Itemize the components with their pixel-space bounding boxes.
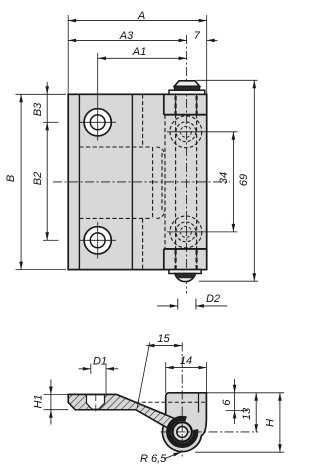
upper hidden hole on knuckle leaf (dashed circles) xyxy=(170,116,202,148)
mating leaf edge in side view xyxy=(198,393,200,413)
knuckle bottom segment xyxy=(164,249,207,270)
svg-text:6: 6 xyxy=(221,399,233,406)
dimension 6 xyxy=(221,379,248,424)
hinge body front view xyxy=(68,94,207,269)
hidden contour of mating leaf (dashed) xyxy=(79,94,152,269)
hinge pin bottom end xyxy=(169,270,201,282)
lower hole crosshair xyxy=(80,222,117,259)
pin section outer xyxy=(173,422,192,441)
side view body (mating leaf and knuckle) xyxy=(68,393,206,452)
svg-text:13: 13 xyxy=(241,407,253,420)
lower hidden hole centerline xyxy=(167,231,238,233)
hidden fillet arcs at leaf-knuckle junction (dashed) xyxy=(157,147,165,218)
svg-text:B: B xyxy=(5,175,17,182)
knuckle hidden left edge (dashed) xyxy=(162,115,165,249)
dimension 14 xyxy=(166,355,207,393)
dimension 13 xyxy=(241,393,258,433)
svg-text:A: A xyxy=(137,10,145,22)
dimension A3 xyxy=(68,30,186,42)
radius callout R 6,5 xyxy=(140,452,181,465)
dimension B2 xyxy=(32,122,59,240)
leaf curl around pin (section) xyxy=(169,418,196,445)
svg-text:14: 14 xyxy=(180,355,192,367)
dimension 15 xyxy=(137,333,182,407)
countersunk hole section xyxy=(87,395,105,409)
svg-text:15: 15 xyxy=(157,333,170,345)
knuckle centerlines xyxy=(161,343,259,457)
lower hidden hole on knuckle leaf (dashed circles) xyxy=(170,216,202,248)
leaf bend line xyxy=(131,94,133,269)
dimension H xyxy=(195,393,284,452)
svg-text:A3: A3 xyxy=(119,30,134,42)
leaf inner edge line xyxy=(78,94,80,269)
hinge pin head xyxy=(169,81,205,94)
svg-text:7: 7 xyxy=(194,30,201,42)
lower counterbored hole xyxy=(84,227,111,254)
pin bore hidden walls (dashed) xyxy=(176,94,197,269)
svg-text:A1: A1 xyxy=(132,46,146,58)
dimension B3 xyxy=(32,82,59,130)
horizontal symmetry centerline xyxy=(53,181,230,183)
upper hidden hole centerline xyxy=(167,131,238,133)
extension line left edge xyxy=(67,15,69,94)
svg-text:34: 34 xyxy=(218,172,230,184)
svg-text:H1: H1 xyxy=(32,394,44,408)
svg-text:B2: B2 xyxy=(32,172,44,185)
dimension 34 xyxy=(218,132,235,232)
dimension 7 xyxy=(194,30,218,42)
dimension B xyxy=(5,94,66,269)
sectioned leaf (hatched) xyxy=(68,395,174,429)
svg-text:69: 69 xyxy=(238,174,250,186)
upper hole crosshair xyxy=(80,53,117,141)
svg-text:H: H xyxy=(265,419,277,427)
svg-text:D1: D1 xyxy=(93,356,107,368)
pin bore walls inside knuckle segments (bold dashes) xyxy=(176,96,197,269)
dimension 69 xyxy=(196,80,258,281)
svg-text:B3: B3 xyxy=(32,102,44,116)
pin axis centerline xyxy=(186,35,188,294)
dimension D2 xyxy=(157,293,228,310)
side view hidden line xyxy=(129,401,206,403)
svg-text:R 6,5: R 6,5 xyxy=(140,453,167,465)
upper counterbored hole xyxy=(84,109,111,136)
dimension A xyxy=(68,10,207,23)
knuckle top segment xyxy=(164,94,207,114)
dimension H1 xyxy=(32,380,68,425)
extension line right edge xyxy=(206,15,208,94)
pin section bore xyxy=(177,427,188,438)
dimension A1 xyxy=(98,46,187,60)
svg-text:D2: D2 xyxy=(206,293,220,305)
dimension D1 xyxy=(79,356,119,412)
